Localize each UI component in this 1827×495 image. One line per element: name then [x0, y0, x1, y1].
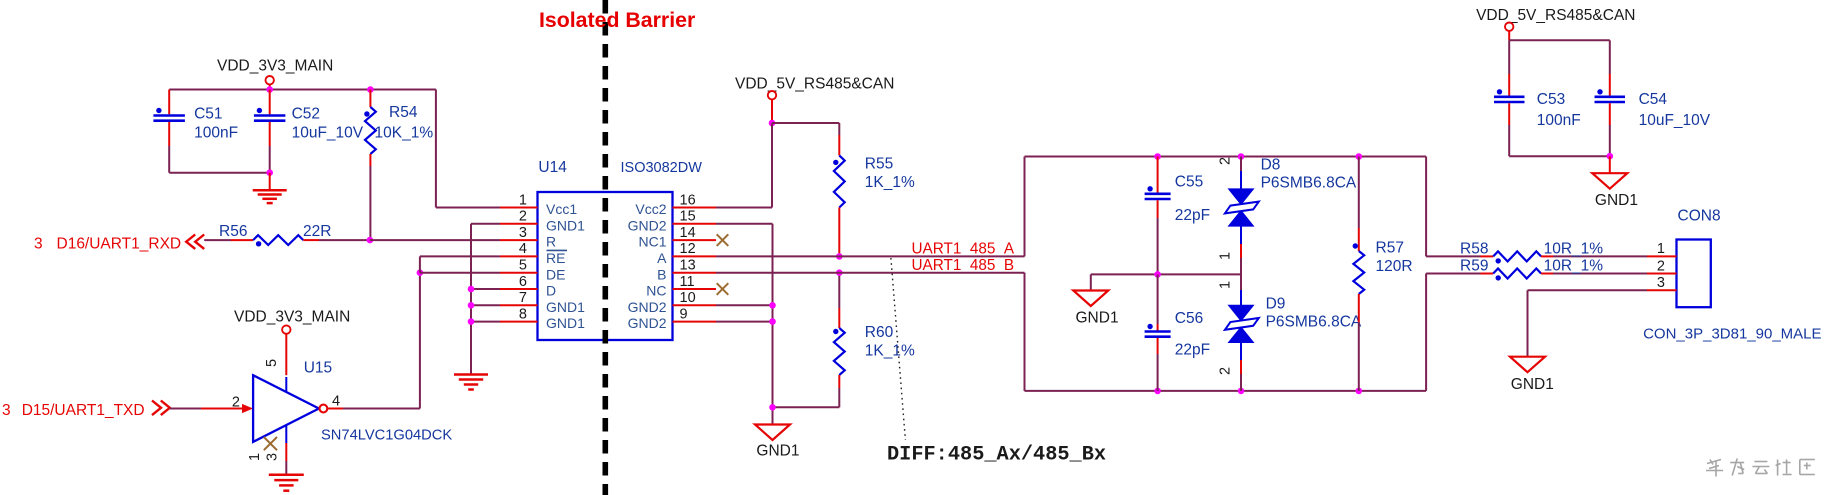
- svg-text:DIFF:485_Ax/485_Bx: DIFF:485_Ax/485_Bx: [887, 444, 1106, 467]
- svg-text:120R: 120R: [1376, 258, 1413, 275]
- svg-text:4: 4: [332, 394, 340, 410]
- resistor R56 22R (series on RXD): [204, 223, 370, 247]
- node junction mid rail C55/C56: [1154, 271, 1161, 278]
- svg-text:10uF_10V: 10uF_10V: [292, 125, 364, 142]
- diode D9 P6SMB6.8CA (TVS): [1218, 281, 1362, 391]
- diode D8 P6SMB6.8CA (TVS): [1218, 157, 1357, 261]
- wire 5V down to U14 pin 16 (Vcc2): [716, 123, 772, 208]
- node junction GND riser pin 7: [468, 302, 475, 309]
- power symbol VDD_5V_RS485&CAN (top right): [1476, 7, 1635, 41]
- svg-text:10R_1%: 10R_1%: [1544, 241, 1604, 258]
- wire to U14 pin 4 (RE): [420, 256, 500, 272]
- svg-text:ISO3082DW: ISO3082DW: [621, 160, 703, 176]
- ground GND1 triangle below CON8: [1510, 357, 1554, 393]
- node junction on 3V3 rail at R54: [367, 86, 374, 93]
- svg-text:1K_1%: 1K_1%: [865, 343, 915, 360]
- svg-text:5: 5: [264, 359, 280, 367]
- svg-text:1: 1: [247, 453, 263, 461]
- power symbol VDD_3V3_MAIN (top left): [217, 58, 333, 90]
- svg-text:A: A: [657, 250, 667, 266]
- node junction GND2 riser pin 10: [769, 302, 776, 309]
- svg-text:3: 3: [34, 236, 43, 253]
- svg-text:P6SMB6.8CA: P6SMB6.8CA: [1266, 314, 1362, 331]
- svg-text:D16/UART1_RXD: D16/UART1_RXD: [57, 236, 182, 253]
- svg-text:VDD_5V_RS485&CAN: VDD_5V_RS485&CAN: [735, 76, 894, 93]
- svg-text:5: 5: [519, 258, 527, 274]
- svg-text:3: 3: [1657, 275, 1665, 291]
- wire between D8 and D9: [1240, 258, 1242, 290]
- svg-text:3: 3: [2, 402, 11, 419]
- op-amp U14 ISO3082DW transceiver body: [519, 159, 702, 340]
- op-amp U15 inverter SN74LVC1G04DCK (triangle): [253, 359, 452, 444]
- node junction bottom rail C56: [1154, 388, 1161, 395]
- svg-text:1: 1: [519, 192, 527, 208]
- svg-text:100nF: 100nF: [194, 125, 238, 142]
- no-connect X on U14 pin 11 NC: [717, 283, 729, 295]
- node junction top rail R57: [1356, 153, 1363, 160]
- svg-text:R57: R57: [1376, 240, 1404, 257]
- resistor R57 120R (termination): [1353, 157, 1413, 391]
- wire to U14 pin 5 (DE): [420, 272, 500, 274]
- svg-text:CON_3P_3D81_90_MALE: CON_3P_3D81_90_MALE: [1643, 326, 1821, 343]
- resistor R55 1K_1% (pullup on A): [833, 123, 915, 256]
- svg-text:NC: NC: [646, 283, 666, 299]
- ground GND1 triangle top right: [1592, 156, 1638, 209]
- svg-text:GND2: GND2: [628, 217, 667, 233]
- capacitor C55 22pF: [1145, 157, 1211, 275]
- annotation DIFF:485_Ax/485_Bx: [887, 444, 1106, 467]
- svg-text:VDD_3V3_MAIN: VDD_3V3_MAIN: [234, 309, 350, 326]
- svg-text:11: 11: [680, 274, 695, 290]
- wire 3V3 rail to U14 pin 1 (Vcc1): [436, 90, 500, 208]
- node junction top rail C55: [1154, 153, 1161, 160]
- svg-text:2: 2: [519, 209, 527, 225]
- node junction GND2 riser pin 9: [769, 318, 776, 325]
- svg-text:P6SMB6.8CA: P6SMB6.8CA: [1261, 175, 1357, 192]
- svg-text:C53: C53: [1537, 91, 1565, 108]
- resistor R54 10K_1%: [364, 90, 433, 241]
- svg-text:R56: R56: [219, 223, 247, 240]
- svg-text:22pF: 22pF: [1175, 207, 1210, 224]
- wire C51 bottom to ground junction: [169, 172, 270, 174]
- svg-text:Vcc2: Vcc2: [635, 201, 666, 217]
- wire U15 output to RE/DE net: [327, 273, 420, 409]
- resistor R60 1K_1% (pulldown on B): [833, 273, 915, 408]
- svg-text:1: 1: [1218, 252, 1234, 260]
- svg-text:D15/UART1_TXD: D15/UART1_TXD: [22, 402, 145, 419]
- svg-text:CON8: CON8: [1678, 208, 1721, 225]
- svg-text:3: 3: [264, 453, 280, 461]
- svg-text:3: 3: [519, 225, 527, 241]
- capacitor C51 100nF: [153, 90, 238, 173]
- svg-text:DE: DE: [546, 266, 565, 282]
- svg-text:9: 9: [680, 306, 688, 322]
- power symbol VDD_5V_RS485&CAN (middle): [735, 76, 894, 124]
- svg-text:22pF: 22pF: [1175, 342, 1210, 359]
- svg-text:7: 7: [519, 290, 527, 306]
- wire TXD to U15 input pin 2: [170, 395, 253, 414]
- svg-text:C54: C54: [1639, 91, 1668, 108]
- svg-text:GND1: GND1: [1595, 192, 1638, 209]
- wire U14 pin 8 GND1: [471, 321, 500, 323]
- svg-text:GND2: GND2: [628, 299, 667, 315]
- svg-text:GND1: GND1: [546, 299, 585, 315]
- ground (earth) below C52: [253, 173, 287, 203]
- node junction R55 on A net: [836, 253, 843, 260]
- ground GND1 triangle below U14 right: [755, 425, 799, 460]
- svg-text:C56: C56: [1175, 310, 1203, 327]
- node junction GND riser pin 6: [468, 286, 475, 293]
- wire U15 pin3 to ground: [285, 443, 287, 475]
- svg-text:2: 2: [232, 395, 240, 411]
- svg-text:10uF_10V: 10uF_10V: [1639, 112, 1711, 129]
- svg-text:100nF: 100nF: [1537, 112, 1581, 129]
- no-connect X on U14 pin 14 NC1: [717, 234, 729, 246]
- svg-text:8: 8: [519, 306, 527, 322]
- svg-text:1: 1: [1218, 281, 1234, 289]
- node junction on 3V3 rail at C52: [266, 86, 273, 93]
- svg-text:10K_1%: 10K_1%: [375, 125, 434, 142]
- svg-text:D: D: [546, 283, 556, 299]
- node junction R60 on B net: [836, 269, 843, 276]
- svg-text:UART1_485_A: UART1_485_A: [912, 241, 1015, 258]
- wire 5V over to R55: [772, 122, 839, 124]
- wire U14 pin 6 (D): [471, 288, 500, 290]
- svg-text:R58: R58: [1460, 241, 1488, 258]
- port D16/UART1_RXD (sheet 3): [34, 235, 204, 253]
- svg-text:GND1: GND1: [756, 443, 799, 460]
- svg-text:SN74LVC1G04DCK: SN74LVC1G04DCK: [321, 428, 452, 444]
- svg-text:R60: R60: [865, 324, 894, 341]
- svg-text:R54: R54: [389, 104, 418, 121]
- U14 pin stubs: [500, 208, 716, 322]
- wire B net (U14 pin 13 to termination block): [716, 272, 1025, 274]
- svg-text:VDD_3V3_MAIN: VDD_3V3_MAIN: [217, 58, 333, 75]
- svg-text:RE: RE: [546, 250, 565, 266]
- wire 5V cap rail top: [1509, 39, 1610, 41]
- svg-text:NC1: NC1: [638, 234, 666, 250]
- svg-text:GND1: GND1: [546, 217, 585, 233]
- capacitor C54 10uF_10V: [1595, 40, 1711, 156]
- wire A net riser and top rail: [1025, 157, 1481, 257]
- svg-text:10: 10: [680, 290, 696, 306]
- svg-text:GND1: GND1: [546, 315, 585, 331]
- svg-text:Isolated Barrier: Isolated Barrier: [539, 8, 695, 32]
- svg-text:1: 1: [1657, 241, 1665, 257]
- svg-text:GND1: GND1: [1511, 376, 1554, 393]
- svg-text:U14: U14: [538, 159, 567, 176]
- svg-text:U15: U15: [304, 360, 332, 377]
- node junction R56/R54 net: [367, 237, 374, 244]
- wire U14 pin 2 GND1 riser: [471, 224, 500, 375]
- node junction top rail D8: [1238, 153, 1245, 160]
- svg-text:4: 4: [519, 241, 527, 257]
- svg-text:13: 13: [680, 258, 696, 274]
- port D15/UART1_TXD (sheet 3): [2, 401, 170, 420]
- wire U14 pin 9 GND2: [716, 321, 773, 323]
- svg-text:14: 14: [680, 225, 696, 241]
- svg-text:C55: C55: [1175, 174, 1203, 191]
- capacitor C52 10uF_10V: [254, 90, 364, 173]
- wire RXD net to U14 pin 3 (R): [370, 239, 500, 241]
- resistor R58 10R_1%: [1460, 241, 1647, 264]
- wire CON8 pin 3 to ground: [1528, 290, 1648, 356]
- capacitor C56 22pF: [1145, 274, 1211, 391]
- wire A net (U14 pin 12 to termination block): [716, 255, 1025, 257]
- node junction C51/C52 ground: [266, 169, 273, 176]
- svg-text:2: 2: [1218, 367, 1234, 375]
- resistor R59 10R_1%: [1460, 257, 1647, 280]
- wire U14 pin 10 GND2: [716, 304, 773, 306]
- node junction 5V at riser: [769, 120, 776, 127]
- svg-text:2: 2: [1218, 157, 1234, 165]
- watermark text: [1706, 459, 1815, 477]
- wire 5V cap rail bottom: [1509, 155, 1610, 157]
- wire U14 pin 7 GND1: [471, 304, 500, 306]
- svg-text:R59: R59: [1460, 257, 1488, 274]
- svg-text:VDD_5V_RS485&CAN: VDD_5V_RS485&CAN: [1476, 7, 1635, 24]
- node junction bottom rail D9: [1238, 388, 1245, 395]
- isolated barrier dashed line: [602, 0, 608, 495]
- svg-text:R: R: [546, 234, 556, 250]
- connector CON8 CON_3P_3D81_90_MALE: [1643, 208, 1821, 343]
- node junction GND riser pin 8: [468, 318, 475, 325]
- wire B net riser and bottom rail: [1025, 273, 1481, 391]
- svg-text:C51: C51: [194, 106, 222, 123]
- svg-text:6: 6: [519, 274, 527, 290]
- U15 output bubble pin 4: [320, 394, 341, 413]
- no-connect X on U15 pin 1: [264, 437, 277, 450]
- net label UART1_485_A: [912, 241, 1015, 258]
- svg-text:GND2: GND2: [628, 315, 667, 331]
- svg-text:B: B: [657, 266, 666, 282]
- pin labels 1 3 of U15: [247, 453, 280, 461]
- ground GND1 triangle at mid rail: [1073, 274, 1118, 326]
- ground (earth) below U14 left pins: [454, 375, 488, 390]
- title Isolated Barrier: [539, 8, 695, 32]
- capacitor C53 100nF: [1494, 40, 1581, 156]
- svg-text:GND1: GND1: [1076, 310, 1119, 327]
- wire mid rail (cap midpoint to TVS midpoint): [1091, 273, 1241, 275]
- net label UART1_485_B: [912, 257, 1015, 274]
- svg-text:1K_1%: 1K_1%: [865, 174, 915, 191]
- svg-text:16: 16: [680, 192, 696, 208]
- node junction bottom rail R57: [1356, 388, 1363, 395]
- dotted leader line to DIFF note: [891, 258, 906, 440]
- svg-text:D8: D8: [1261, 157, 1281, 174]
- svg-text:10R_1%: 10R_1%: [1544, 257, 1604, 274]
- svg-text:2: 2: [1657, 258, 1665, 274]
- svg-text:R55: R55: [865, 156, 893, 173]
- svg-text:22R: 22R: [303, 223, 331, 240]
- node junction cap rail ground: [1607, 153, 1614, 160]
- svg-text:UART1_485_B: UART1_485_B: [912, 257, 1015, 274]
- svg-text:12: 12: [680, 241, 696, 257]
- svg-text:Vcc1: Vcc1: [546, 201, 577, 217]
- wire 3V3 top rail: [169, 89, 436, 91]
- wire GND2 riser from U14 pin 15: [716, 224, 773, 425]
- ground (earth) below U15: [269, 475, 304, 491]
- node junction RE/DE tie: [417, 269, 424, 276]
- wire R60 bottom to GND2 riser: [773, 406, 840, 408]
- svg-text:D9: D9: [1266, 296, 1286, 313]
- svg-text:15: 15: [680, 209, 696, 225]
- node junction GND riser/R60: [769, 404, 776, 411]
- svg-text:C52: C52: [292, 106, 320, 123]
- power symbol VDD_3V3_MAIN (at U15): [234, 309, 350, 376]
